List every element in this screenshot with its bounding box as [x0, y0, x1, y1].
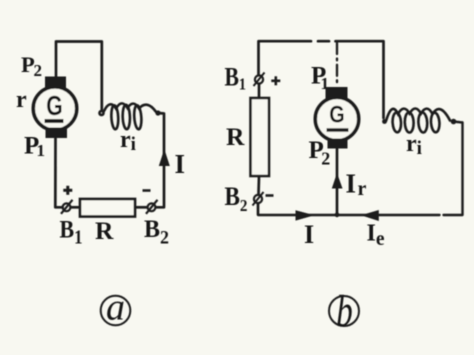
generator G1 (a)	[33, 77, 76, 139]
plus sign (b)	[271, 76, 280, 85]
figure label (b)	[329, 287, 359, 336]
terminal B1 (a)	[61, 200, 73, 214]
inductor ri (b)	[382, 109, 462, 133]
junction node (b)	[335, 212, 340, 217]
terminal B2 (b)	[253, 192, 264, 206]
svg-text:r: r	[16, 87, 27, 113]
svg-text:a: a	[106, 287, 125, 329]
current arrow I (a)	[159, 149, 170, 166]
svg-text:I: I	[175, 149, 186, 179]
wire: B1 to resistor (b)	[258, 84, 261, 98]
generator G2 (b)	[315, 87, 358, 149]
svg-text:b: b	[336, 287, 353, 336]
wire: generator top to coil (a)	[56, 42, 102, 111]
resistor R (b)	[251, 98, 270, 176]
wire: coil to bottom right corner (a)	[156, 113, 164, 207]
wire: generator bottom to bottom bus (b)	[336, 148, 339, 215]
svg-text:I: I	[304, 220, 314, 249]
wire: top bus (b), partly dash-dot	[259, 41, 384, 118]
resistor R (a)	[80, 199, 135, 217]
svg-text:G: G	[329, 102, 345, 129]
svg-text:G: G	[46, 90, 63, 121]
wire: bottom bus (b)	[258, 123, 463, 216]
minus sign (b)	[266, 194, 274, 197]
wire: resistor to B2 (b)	[257, 176, 260, 195]
wire: B2 to resistor (a)	[135, 206, 148, 209]
minus sign (a)	[143, 189, 151, 192]
figure label (a)	[101, 287, 131, 329]
terminal B2 (a)	[146, 200, 158, 214]
wire: dash-dot link top bus to generator (b)	[336, 43, 338, 86]
wire: B1 to generator bottom (a)	[55, 139, 62, 208]
current arrow Ie (b)	[361, 210, 379, 221]
current arrow I (b)	[296, 210, 315, 220]
current arrow Ir (b)	[332, 173, 343, 189]
svg-text:R: R	[226, 122, 245, 151]
svg-text:R: R	[95, 216, 114, 245]
wire: resistor to B1 (a)	[71, 206, 81, 209]
plus sign (a)	[63, 186, 72, 195]
inductor ri (a)	[100, 103, 161, 129]
terminal B1 (b)	[254, 73, 265, 87]
wire: B2 to bottom bus (b)	[257, 204, 260, 216]
